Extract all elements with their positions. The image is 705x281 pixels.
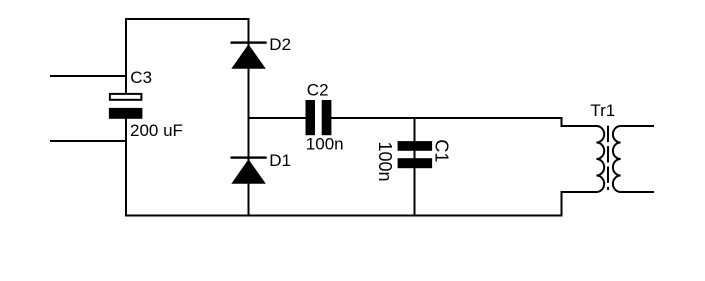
wire left rail vertical upper: [125, 18, 127, 95]
capacitor C3 positive plate (hollow): [110, 94, 141, 100]
wire mid horizontal C2 to transformer: [331, 117, 562, 119]
wire secondary top lead: [621, 125, 654, 127]
svg-text:C2: C2: [307, 80, 329, 99]
wire bottom bus: [125, 215, 563, 217]
wire mid horizontal diode rail to C2: [249, 117, 307, 119]
wire top rail horizontal: [125, 18, 250, 20]
capacitor C3 negative plate (solid): [109, 108, 142, 119]
wire step down to primary top lead: [561, 117, 563, 126]
wire primary top lead: [561, 125, 597, 127]
svg-text:Tr1: Tr1: [590, 101, 615, 120]
diode D2: [231, 44, 265, 69]
wire primary bottom lead: [561, 191, 597, 193]
wire C1 branch vertical: [414, 117, 416, 217]
capacitor C1 top plate: [398, 141, 433, 151]
transformer Tr1 secondary winding: [613, 126, 621, 192]
wire left rail vertical lower: [125, 110, 127, 217]
wire diode rail vertical: [248, 18, 250, 217]
diode D1 cathode bar: [231, 156, 267, 158]
capacitor C2 left plate: [306, 100, 316, 135]
wire input stub top: [50, 75, 126, 77]
svg-text:100n: 100n: [375, 142, 395, 182]
wire step up from bus to primary bottom lead: [561, 192, 563, 217]
capacitor C1 bottom plate: [398, 158, 433, 168]
svg-text:D2: D2: [269, 35, 291, 54]
diode D1: [231, 159, 265, 184]
wire input stub bottom: [50, 140, 126, 142]
svg-text:D1: D1: [269, 151, 291, 170]
transformer core: [607, 126, 609, 190]
svg-text:200 uF: 200 uF: [130, 121, 183, 140]
wire secondary bottom lead: [621, 191, 654, 193]
transformer Tr1 primary winding: [596, 126, 604, 192]
svg-text:C3: C3: [130, 68, 152, 87]
diode D2 cathode bar: [231, 41, 267, 43]
svg-text:100n: 100n: [306, 135, 344, 154]
capacitor C2 right plate: [322, 100, 332, 135]
svg-text:C1: C1: [431, 139, 451, 162]
